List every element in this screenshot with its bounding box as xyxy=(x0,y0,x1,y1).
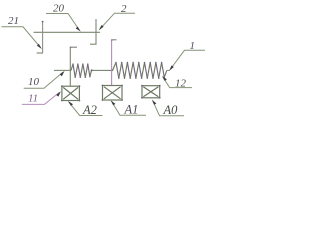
label A2 xyxy=(82,103,97,117)
solenoid A0 (box with cross) xyxy=(141,85,161,99)
svg-text:21: 21 xyxy=(8,15,19,27)
leader A2 xyxy=(68,101,103,116)
spring 10 (short spring) xyxy=(70,63,92,78)
pin (vertical link, part 20 end) xyxy=(95,19,97,44)
foot of pin 20 xyxy=(90,43,97,45)
leader 11 xyxy=(22,91,61,104)
leader 1 xyxy=(169,50,205,71)
svg-text:A1: A1 xyxy=(124,103,139,117)
leader 12 xyxy=(162,76,192,88)
leader 10 xyxy=(24,71,65,89)
spring seat stub (left) xyxy=(54,69,70,71)
leader A1 xyxy=(111,100,146,115)
solenoid A2 (box with cross) xyxy=(61,85,80,101)
bracket and rod to solenoid A1 (part 12 path) xyxy=(111,39,117,85)
pin (vertical link, part 21) xyxy=(42,21,44,53)
svg-text:11: 11 xyxy=(28,93,38,105)
rod (top horizontal link, part 2) xyxy=(34,31,101,33)
svg-text:A2: A2 xyxy=(82,103,97,117)
label 20 xyxy=(53,3,65,15)
solenoid A1 (box with cross) xyxy=(102,85,123,101)
leader 2 xyxy=(99,13,135,30)
label 1 xyxy=(190,40,196,52)
connecting rod between springs xyxy=(92,69,113,71)
foot of pin 21 xyxy=(37,52,43,54)
label 2 xyxy=(121,3,127,15)
label A0 xyxy=(163,103,179,117)
leader 21 xyxy=(2,27,42,49)
svg-text:10: 10 xyxy=(28,76,40,88)
svg-text:A0: A0 xyxy=(163,103,179,117)
leader A0 xyxy=(152,100,184,116)
bracket and rod to solenoid A2 (part 11 path) xyxy=(70,47,77,87)
label 11 xyxy=(28,93,38,105)
svg-text:20: 20 xyxy=(53,3,65,15)
label A1 xyxy=(124,103,139,117)
label 21 xyxy=(8,15,19,27)
label 10 xyxy=(28,76,40,88)
label 12 xyxy=(175,78,187,90)
spring 1 (long spring) xyxy=(113,62,170,79)
leader 20 xyxy=(46,14,81,32)
